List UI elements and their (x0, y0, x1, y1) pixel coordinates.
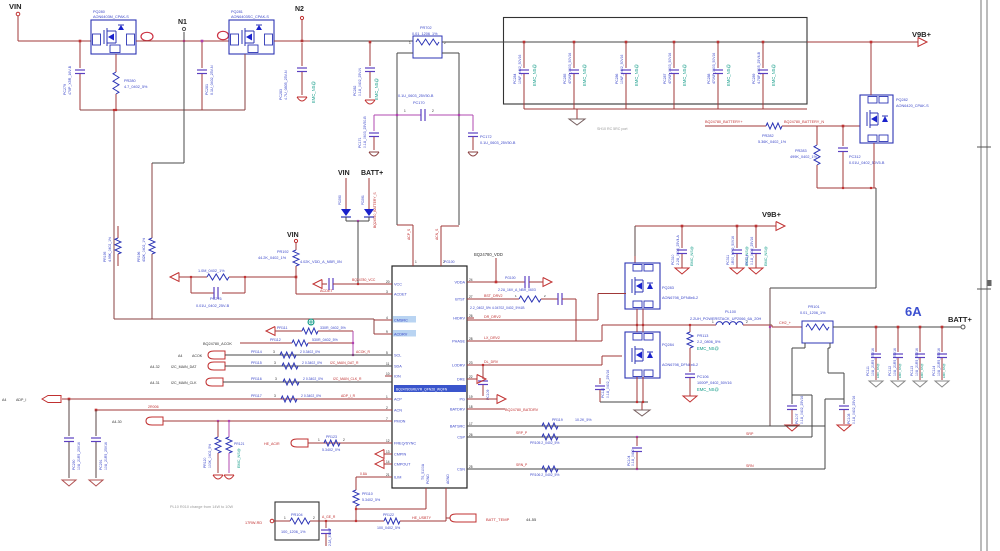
svg-text:ACOK: ACOK (192, 354, 203, 358)
ground (297, 96, 307, 98)
net VCC (313, 280, 322, 289)
capacitor PC110 (599, 378, 601, 384)
svg-text:19: 19 (469, 395, 473, 399)
pin flag PG (467, 398, 497, 400)
svg-text:18: 18 (469, 405, 473, 409)
pin DRE (467, 378, 474, 380)
svg-text:PC112: PC112 (888, 366, 892, 376)
net BST_DRV2 (467, 298, 519, 300)
svg-text:EMC_NS@: EMC_NS@ (374, 78, 379, 100)
svg-text:5.3402_5%: 5.3402_5% (362, 498, 381, 502)
ground (213, 474, 223, 476)
svg-text:EMC_NS@: EMC_NS@ (876, 363, 880, 378)
pin CMPIN (385, 453, 392, 455)
capacitor PC311 (736, 225, 739, 228)
capacitor PC107 (787, 405, 797, 407)
svg-text:PC311: PC311 (726, 255, 730, 265)
svg-text:2.2U_0805_25V4-A: 2.2U_0805_25V4-A (676, 234, 680, 265)
resistor PR120 (217, 421, 219, 437)
svg-text:5.36K_0402_1%: 5.36K_0402_1% (758, 140, 787, 144)
svg-text:4.7U_0805_25V-N: 4.7U_0805_25V-N (284, 70, 288, 100)
svg-text:VDDA: VDDA (454, 281, 465, 285)
sheet border right (980, 0, 982, 551)
svg-text:VIN: VIN (287, 232, 299, 239)
wire (345, 217, 347, 221)
svg-text:PC289: PC289 (752, 74, 756, 84)
svg-text:PC283: PC283 (279, 89, 283, 100)
svg-text:2 0.3402_0%: 2 0.3402_0% (300, 350, 320, 354)
svg-text:BATT+: BATT+ (361, 170, 383, 177)
svg-text:4.7UF_0805_25V4-B: 4.7UF_0805_25V4-B (757, 51, 761, 84)
svg-text:AON6798_DFN8x6-2: AON6798_DFN8x6-2 (662, 363, 698, 367)
svg-text:2: 2 (432, 109, 434, 113)
svg-text:PQ284: PQ284 (662, 343, 674, 347)
svg-text:21: 21 (386, 473, 390, 477)
pin SCL (385, 354, 392, 356)
svg-text:PC310: PC310 (671, 255, 675, 265)
svg-text:PC312: PC312 (849, 155, 861, 159)
pin ACDET (385, 293, 392, 295)
svg-text:10U_21R5_25V16: 10U_21R5_25V16 (937, 348, 941, 376)
svg-text:BTST: BTST (455, 298, 465, 302)
svg-text:3: 3 (386, 290, 388, 294)
svg-text:0.8A: 0.8A (360, 472, 368, 476)
svg-text:PR114: PR114 (251, 350, 262, 354)
resistor PR702 (413, 36, 442, 58)
svg-text:6A: 6A (905, 304, 922, 319)
svg-text:22: 22 (469, 375, 473, 379)
pin flag (543, 278, 552, 287)
ground (935, 381, 949, 387)
capacitor PC285 (573, 41, 576, 44)
svg-text:PC282: PC282 (353, 86, 357, 96)
svg-text:PR116: PR116 (251, 377, 262, 381)
inductor PL100 (716, 322, 743, 325)
svg-text:PR111: PR111 (277, 326, 287, 330)
svg-text:ACP: ACP (394, 398, 402, 402)
capacitor PC172 (472, 115, 474, 131)
op-amp U1 charger IC BQ24780S (392, 266, 467, 488)
svg-text:PC286: PC286 (615, 74, 619, 84)
transistor PQ281 (229, 20, 274, 54)
power +3V (308, 319, 314, 325)
svg-text:2 0.3402_0%: 2 0.3402_0% (301, 394, 321, 398)
net BATSRC row (467, 425, 825, 427)
pin ACDRV (385, 333, 392, 335)
svg-text:0.01U_0402_25V-B: 0.01U_0402_25V-B (196, 304, 230, 308)
svg-text:BQ24780SRUYR_QFN28_WQFN: BQ24780SRUYR_QFN28_WQFN (396, 388, 448, 392)
svg-text:11: 11 (386, 362, 390, 366)
capacitor PC284 (523, 41, 526, 44)
ground (785, 425, 799, 431)
ground (683, 396, 697, 402)
pin highlight (141, 32, 153, 40)
ground (365, 99, 375, 101)
net DL_DRV (467, 364, 602, 366)
capacitor PC112 (897, 326, 900, 329)
svg-text:CH2_+: CH2_+ (779, 321, 792, 325)
pin ILIM (385, 476, 392, 478)
ground (837, 425, 851, 431)
resistor PR282 (766, 123, 782, 129)
wire (356, 508, 426, 510)
svg-text:SDA: SDA (394, 365, 402, 369)
svg-text:PR121: PR121 (234, 442, 244, 446)
svg-text:PQ283: PQ283 (662, 286, 674, 290)
resistor PR110 (355, 477, 357, 490)
svg-text:DL_DRV: DL_DRV (484, 360, 499, 364)
svg-text:0.1U_0402_25V16: 0.1U_0402_25V16 (800, 396, 804, 424)
resistor PR195 (117, 226, 119, 238)
svg-text:PC111: PC111 (866, 366, 870, 376)
ground (891, 381, 905, 387)
capacitor PC106 (snubber) (685, 373, 695, 375)
svg-text:PQ280: PQ280 (93, 10, 105, 14)
svg-text:470NF_0603_50V16: 470NF_0603_50V16 (712, 53, 716, 84)
svg-text:0.1U_0402_25V16: 0.1U_0402_25V16 (750, 237, 754, 265)
wire (source bus) (817, 187, 876, 189)
net ILIM (356, 476, 392, 478)
svg-text:PC288: PC288 (707, 74, 711, 84)
resistor PR104 (box) (275, 502, 319, 540)
svg-text:23: 23 (469, 361, 473, 365)
svg-text:1: 1 (409, 41, 411, 45)
svg-text:17RW-RD: 17RW-RD (245, 521, 262, 525)
svg-text:I2C_MAIN_CLK_R: I2C_MAIN_CLK_R (333, 377, 362, 381)
svg-text:A_GE_R: A_GE_R (322, 515, 336, 519)
svg-text:PC276: PC276 (210, 297, 222, 301)
svg-text:N1: N1 (178, 19, 187, 26)
svg-text:PHASE: PHASE (452, 340, 465, 344)
svg-text:12: 12 (386, 439, 390, 443)
transistor PQ282 (860, 95, 893, 143)
net LX_DRV2 (467, 340, 602, 342)
net DR_DRV2 (467, 319, 598, 321)
resistor PR122 (384, 518, 400, 524)
svg-text:14: 14 (386, 460, 390, 464)
svg-text:PL100: PL100 (725, 310, 736, 314)
capacitor PC109 (482, 365, 484, 379)
wire (295, 276, 298, 279)
capacitor PC286 (625, 41, 628, 44)
svg-text:EMC_NS@: EMC_NS@ (690, 246, 694, 266)
svg-text:2: 2 (746, 320, 748, 324)
capacitor PC281 (201, 41, 203, 68)
svg-text:2.2_0402_5% 4.04702_0402_5%1B: 2.2_0402_5% 4.04702_0402_5%1B (470, 306, 525, 310)
svg-text:0.1U_0402_25V16: 0.1U_0402_25V16 (852, 396, 856, 424)
ground (224, 474, 234, 476)
svg-text:24: 24 (469, 278, 473, 282)
resistor PR112 feedback (170, 273, 179, 282)
svg-text:44.2K_0402_1%: 44.2K_0402_1% (258, 256, 287, 260)
svg-text:PC279: PC279 (63, 84, 67, 95)
svg-text:PC285: PC285 (563, 74, 567, 84)
svg-text:9: 9 (386, 330, 388, 334)
net BQ24780_BATDRV (467, 408, 505, 410)
capacitor PC287 (673, 41, 676, 44)
svg-text:PC107: PC107 (795, 414, 799, 424)
svg-text:10U_21R5_25V16: 10U_21R5_25V16 (77, 442, 81, 470)
resistor PR119 (542, 423, 558, 429)
svg-text:HIDRV: HIDRV (453, 317, 465, 321)
svg-text:PMON: PMON (394, 420, 406, 424)
wire (870, 42, 872, 95)
svg-text:0.1U_0402_25V-N: 0.1U_0402_25V-N (210, 65, 214, 95)
svg-text:10U_21R5_25V16: 10U_21R5_25V16 (915, 348, 919, 376)
svg-text:SCL: SCL (394, 354, 401, 358)
pin VCC (385, 283, 392, 285)
svg-text:4.99K_0402_1%: 4.99K_0402_1% (108, 237, 112, 262)
svg-text:EMC_NS@: EMC_NS@ (764, 246, 768, 266)
svg-text:PR101: PR101 (808, 305, 820, 309)
svg-text:2: 2 (313, 516, 315, 520)
net SRN row (467, 468, 825, 470)
wire (824, 399, 826, 469)
svg-text:3: 3 (273, 350, 275, 354)
svg-text:N2: N2 (295, 6, 304, 13)
svg-text:PC114: PC114 (932, 366, 936, 376)
wire (873, 143, 875, 188)
svg-text:PD280: PD280 (338, 195, 342, 205)
ground (468, 151, 478, 153)
resistor PR116 (283, 379, 299, 385)
svg-text:A4-31: A4-31 (150, 381, 160, 385)
svg-text:44-55: 44-55 (526, 517, 537, 522)
wire (811, 395, 813, 437)
wire (136, 40, 229, 42)
svg-text:I2C_MAIN_CLK: I2C_MAIN_CLK (171, 381, 197, 385)
svg-text:100_1206_1%: 100_1206_1% (281, 530, 306, 534)
capacitor PC105 (325, 521, 327, 528)
svg-text:470P_X5R_16V-B: 470P_X5R_16V-B (68, 65, 72, 95)
pin flag CMPIN (375, 450, 384, 459)
svg-text:EMC_NS@: EMC_NS@ (898, 363, 902, 378)
capacitor PC288 (717, 41, 720, 44)
resistor PR114 (280, 352, 296, 358)
svg-text:PR115: PR115 (251, 361, 262, 365)
svg-text:A4-32: A4-32 (150, 365, 160, 369)
svg-text:499K_0402_1%: 499K_0402_1% (790, 155, 818, 159)
pin flag CMPOUT (375, 460, 384, 469)
ground (730, 268, 744, 274)
svg-text:0.1U_0603_25V50-B: 0.1U_0603_25V50-B (480, 141, 516, 145)
svg-text:A4: A4 (2, 398, 6, 402)
svg-text:ACDET: ACDET (394, 293, 408, 297)
capacitor PC103 (541, 298, 558, 300)
svg-text:EMC_NS@: EMC_NS@ (532, 64, 537, 86)
svg-text:EMC_NS@: EMC_NS@ (920, 363, 924, 378)
svg-text:26: 26 (469, 433, 473, 437)
wire (601, 325, 603, 341)
svg-text:V9B+: V9B+ (912, 30, 932, 39)
wire (274, 520, 290, 522)
svg-text:530R_0402_5%: 530R_0402_5% (312, 338, 339, 342)
svg-text:BQ24780_BATTERY_N: BQ24780_BATTERY_N (784, 120, 824, 124)
svg-text:ILIM: ILIM (394, 476, 401, 480)
svg-text:10U_21R5_25V16: 10U_21R5_25V16 (104, 442, 108, 470)
resistor PR113 (snubber) (689, 325, 691, 332)
capacitor PC104 (636, 436, 638, 438)
capacitor PC276 (191, 292, 214, 294)
svg-text:BATT_TEMP: BATT_TEMP (486, 517, 510, 522)
diode PD280 (345, 178, 347, 209)
wire (635, 225, 776, 227)
svg-text:PC113: PC113 (910, 366, 914, 376)
svg-text:1: 1 (386, 395, 388, 399)
svg-text:PC291: PC291 (99, 460, 103, 470)
svg-text:PR122: PR122 (383, 513, 394, 517)
svg-text:BQ24780_VDD: BQ24780_VDD (474, 252, 503, 257)
svg-text:TS_5100A: TS_5100A (421, 463, 425, 480)
resistor PR196 (151, 163, 153, 238)
svg-text:A4: A4 (178, 354, 182, 358)
svg-text:AON6420_CPAK-S: AON6420_CPAK-S (896, 104, 929, 108)
svg-text:PR105 2_0402_5%: PR105 2_0402_5% (530, 441, 559, 445)
capacitor PC171 (373, 115, 375, 131)
wire (575, 299, 577, 341)
ground (369, 151, 379, 153)
svg-text:13: 13 (386, 450, 390, 454)
svg-text:PG: PG (460, 398, 466, 402)
svg-text:0.1U_0402_25V-N: 0.1U_0402_25V-N (358, 68, 362, 96)
ground (576, 109, 578, 119)
svg-text:I2C_MAIN_DAT: I2C_MAIN_DAT (171, 365, 197, 369)
svg-text:LODRV: LODRV (452, 364, 465, 368)
svg-text:10U_21R5_25V16: 10U_21R5_25V16 (893, 348, 897, 376)
svg-text:EMC_NS@: EMC_NS@ (582, 64, 587, 86)
svg-text:2: 2 (343, 438, 345, 442)
svg-text:ACN_S: ACN_S (435, 228, 439, 240)
capacitor PC290 (68, 399, 70, 436)
svg-text:PC110: PC110 (601, 388, 605, 398)
capacitor PC170 (374, 114, 421, 116)
svg-text:ADP_I_R: ADP_I_R (341, 394, 356, 398)
capacitor PC108 (839, 405, 849, 407)
svg-text:10.2K_5%: 10.2K_5% (575, 418, 592, 422)
svg-text:27: 27 (469, 295, 473, 299)
wire ACN row (96, 409, 392, 411)
svg-text:CMSRC: CMSRC (394, 319, 408, 323)
svg-text:SRN_P: SRN_P (516, 463, 528, 467)
pin VDDA (467, 281, 474, 283)
svg-text:BQ24780_BATTERY+: BQ24780_BATTERY+ (705, 120, 743, 124)
capacitor PC282 (369, 41, 372, 44)
svg-text:I2C_MAIN_DAT_R: I2C_MAIN_DAT_R (330, 361, 359, 365)
svg-text:EMC_NS@: EMC_NS@ (682, 64, 687, 86)
wire (833, 326, 961, 328)
svg-text:PR117: PR117 (251, 394, 262, 398)
pin HIDRV (467, 317, 474, 319)
svg-text:FREQ/SYNC: FREQ/SYNC (394, 442, 416, 446)
svg-text:EMC_NS@: EMC_NS@ (311, 81, 316, 103)
svg-text:PC314: PC314 (745, 255, 749, 265)
wire (kelvin) (397, 52, 413, 54)
svg-text:EMC_NS@: EMC_NS@ (726, 64, 731, 86)
svg-text:1: 1 (404, 109, 406, 113)
resistor PR121 (228, 421, 230, 437)
cap bank box (504, 18, 808, 105)
capacitor PC314 (755, 225, 758, 228)
svg-text:0.01_1206_1%: 0.01_1206_1% (800, 311, 826, 315)
svg-text:PC171: PC171 (358, 138, 362, 148)
pin PMON (385, 420, 392, 422)
wire (274, 40, 310, 42)
svg-text:PC284: PC284 (513, 74, 517, 84)
svg-text:A4-30: A4-30 (112, 420, 122, 424)
wire (397, 224, 413, 226)
svg-text:EMC_NS@: EMC_NS@ (697, 346, 719, 351)
svg-text:28: 28 (469, 337, 473, 341)
svg-text:PC106: PC106 (697, 375, 709, 379)
capacitor PC289 (762, 41, 765, 44)
net BATT_TEMP (446, 517, 450, 519)
svg-text:PR120: PR120 (203, 458, 207, 468)
svg-text:BQ24780_ACOK: BQ24780_ACOK (203, 342, 232, 346)
svg-text:PC108: PC108 (847, 414, 851, 424)
svg-text:AON6798_DFN8x6-2: AON6798_DFN8x6-2 (662, 296, 698, 300)
svg-text:1: 1 (415, 260, 417, 264)
wire (743, 324, 772, 326)
svg-text:PQ281: PQ281 (231, 10, 243, 14)
svg-text:1000P_0402_50V16: 1000P_0402_50V16 (697, 381, 732, 385)
svg-text:CSP: CSP (457, 436, 465, 440)
resistor PR117 (281, 396, 297, 402)
ground (749, 268, 763, 274)
capacitor PC279 (79, 41, 81, 68)
svg-text:PGND: PGND (426, 474, 430, 484)
svg-text:LX_DRV2: LX_DRV2 (484, 336, 500, 340)
svg-text:BATDRV: BATDRV (450, 408, 466, 412)
svg-text:0.1U_0402: 0.1U_0402 (631, 449, 635, 466)
wire (244, 54, 246, 110)
svg-text:CMPIN: CMPIN (394, 453, 406, 457)
net ACDET (296, 293, 392, 295)
svg-text:PR113: PR113 (697, 334, 708, 338)
pin ACN top (440, 258, 442, 266)
svg-text:1: 1 (318, 438, 320, 442)
svg-text:4.7_0402_5%: 4.7_0402_5% (124, 85, 148, 89)
net SRP row (467, 436, 812, 438)
svg-text:V9B+: V9B+ (762, 210, 782, 219)
svg-text:330R_0402_5%: 330R_0402_5% (320, 326, 347, 330)
pin PHASE (467, 340, 474, 342)
ground (62, 480, 76, 486)
svg-text:EMC_NS@: EMC_NS@ (942, 363, 946, 378)
svg-text:20: 20 (386, 280, 390, 284)
pin ION (385, 375, 392, 377)
resistor PR104b (519, 296, 541, 302)
resistor PR280 (115, 54, 117, 72)
svg-text:2 0.3402_0%: 2 0.3402_0% (302, 361, 322, 365)
capacitor PC291 (95, 410, 97, 436)
wire (442, 41, 503, 43)
pin highlight (218, 31, 229, 39)
wire (636, 325, 638, 332)
svg-text:ACP_S: ACP_S (407, 228, 411, 240)
pin LODRV (467, 364, 474, 366)
capacitor PC283 (301, 43, 303, 66)
svg-text:0.01_1206_1%: 0.01_1206_1% (412, 32, 438, 36)
svg-text:432K_0402_1%: 432K_0402_1% (142, 238, 146, 262)
transistor PQ280 (91, 20, 136, 54)
svg-text:DR_DRV2: DR_DRV2 (484, 315, 501, 319)
svg-text:0.01U_0402_50V5-B: 0.01U_0402_50V5-B (849, 161, 885, 165)
svg-text:VCC: VCC (394, 283, 402, 287)
resistor PR115 (282, 363, 298, 369)
svg-text:5: 5 (386, 351, 388, 355)
svg-text:26: 26 (469, 314, 473, 318)
svg-text:VIN: VIN (9, 2, 22, 11)
